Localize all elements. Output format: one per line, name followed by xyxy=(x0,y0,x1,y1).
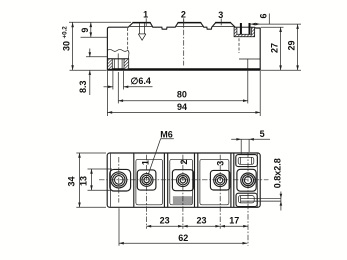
dimension 6 xyxy=(251,13,302,25)
right mounting boss xyxy=(237,169,256,191)
bushing hatch right xyxy=(124,59,129,69)
dimension 30 +0.2 xyxy=(62,22,131,70)
dimension 13 xyxy=(79,169,112,190)
module body outline (side view) xyxy=(107,23,260,71)
gate tab thickness lines xyxy=(241,197,281,199)
center line terminal 2 (side view) xyxy=(183,20,185,66)
section rect T3 xyxy=(200,159,229,205)
bushing right flange arc xyxy=(128,50,129,59)
bushing shoulder xyxy=(107,58,128,60)
svg-text:29: 29 xyxy=(287,40,297,50)
terminal screw hidden under pad 1 xyxy=(138,23,146,40)
washer square T3 xyxy=(210,170,229,190)
mounting bushing section left: wavy break line xyxy=(107,49,127,51)
svg-text:23: 23 xyxy=(160,215,170,225)
bushing slot inner hole lines xyxy=(113,59,115,70)
svg-text:23: 23 xyxy=(196,215,206,225)
svg-text:M6: M6 xyxy=(160,130,173,140)
svg-text:0.8x2.8: 0.8x2.8 xyxy=(273,158,283,188)
label 2 (side view) xyxy=(181,10,186,27)
dimension 80 xyxy=(118,70,248,104)
terminal 2 circles xyxy=(177,174,190,187)
washer square T1 xyxy=(137,170,156,190)
dimension 8.3 xyxy=(78,49,108,96)
dimension 9 xyxy=(80,22,107,37)
gate terminal insert (hatched) right xyxy=(234,27,255,36)
left mounting boss xyxy=(110,169,131,191)
svg-text:2: 2 xyxy=(179,159,189,164)
svg-text:13: 13 xyxy=(79,176,89,186)
svg-text:8.3: 8.3 xyxy=(78,80,88,93)
terminal 3 circles xyxy=(214,174,227,187)
T2 gray bar xyxy=(173,196,192,204)
svg-text:2: 2 xyxy=(181,10,186,20)
dimension 29 xyxy=(261,24,301,70)
svg-text:3: 3 xyxy=(215,161,225,166)
svg-text:3: 3 xyxy=(218,10,223,20)
svg-text:9: 9 xyxy=(80,28,90,33)
svg-text:6: 6 xyxy=(259,13,269,18)
divider left cap xyxy=(133,153,135,207)
svg-text:62: 62 xyxy=(178,233,188,243)
dimension 5 xyxy=(231,129,270,155)
svg-text:34: 34 xyxy=(66,176,76,186)
dimension 62 xyxy=(119,208,247,246)
svg-text:27: 27 xyxy=(269,43,279,53)
section rect T2 xyxy=(170,159,193,205)
svg-text:17: 17 xyxy=(229,215,239,225)
center line right column xyxy=(247,152,249,246)
bushing center hole line xyxy=(117,54,119,70)
terminal pad top edges (thick) xyxy=(133,22,151,24)
dimension 0.8x2.8 xyxy=(273,158,283,210)
dimension 34 xyxy=(66,153,106,207)
center line terminal 2 xyxy=(182,155,184,229)
right mounting hole xyxy=(241,173,255,187)
svg-text:1: 1 xyxy=(141,160,151,165)
gate pin 1 (edge view) xyxy=(240,23,242,34)
baseplate thick edge xyxy=(107,68,260,70)
right mounting hole hidden lines xyxy=(239,38,260,68)
left rim line xyxy=(110,154,112,207)
right rim line xyxy=(256,154,258,207)
bushing hatch left xyxy=(108,59,113,69)
center line terminal 3 xyxy=(219,155,221,229)
center line terminal 1 xyxy=(145,155,147,229)
gate pin 2 (edge view) xyxy=(249,23,251,34)
upper gate tab block xyxy=(236,155,258,167)
terminal pad base lines xyxy=(130,25,153,27)
bushing hidden cavity line xyxy=(127,28,129,50)
dimension 94 xyxy=(107,71,260,116)
svg-text:80: 80 xyxy=(177,90,187,100)
washer square T2 xyxy=(172,170,193,191)
divider T3/right cap pair xyxy=(230,153,232,207)
label M6 with leader xyxy=(148,130,174,176)
dimension 27 xyxy=(261,27,284,70)
svg-text:5: 5 xyxy=(260,129,265,139)
svg-text:∅6.4: ∅6.4 xyxy=(131,76,151,86)
left mounting hole xyxy=(111,172,127,188)
terminal 1 circles xyxy=(140,174,153,187)
center line left hole xyxy=(118,157,120,203)
svg-text:1: 1 xyxy=(143,10,148,20)
lower gate tab block xyxy=(236,193,257,206)
dimension dia 6.4 xyxy=(104,71,153,90)
label 3 (side view) xyxy=(218,10,223,26)
body outline (plan view) xyxy=(107,153,260,207)
svg-text:94: 94 xyxy=(177,102,187,112)
dimension 23 23 17 xyxy=(146,215,248,227)
divider T2/T3 pair xyxy=(194,153,196,207)
divider T1/T2 pair xyxy=(163,153,165,207)
label 1 (side view) xyxy=(143,10,148,27)
section rect T1 xyxy=(136,159,163,205)
horizontal center line (plan view) xyxy=(99,179,269,181)
